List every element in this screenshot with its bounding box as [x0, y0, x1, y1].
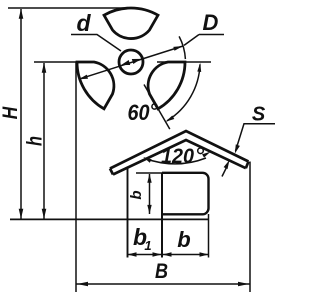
arrowhead 120 right	[202, 152, 210, 158]
B right extension line	[249, 162, 251, 293]
arrowhead on extension line left of d line	[79, 75, 88, 80]
B dimension line	[76, 283, 250, 285]
h dimension line	[43, 63, 45, 219]
left horizontal extension line	[34, 61, 77, 63]
rotor blade lower-right	[148, 62, 185, 109]
label b1	[133, 224, 152, 253]
svg-text:D: D	[203, 10, 219, 35]
B left extension line	[75, 62, 77, 292]
svg-text:b: b	[128, 190, 145, 199]
svg-text:1: 1	[144, 238, 151, 253]
label S with leader	[236, 104, 276, 152]
svg-text:B: B	[155, 260, 168, 283]
svg-text:h: h	[24, 136, 47, 146]
arrowhead b1 right	[153, 252, 162, 257]
arrowhead d right	[132, 59, 141, 64]
label D with leader	[184, 10, 224, 45]
arrowhead b1 left	[128, 252, 137, 257]
right horizontal radial extension	[157, 61, 211, 63]
svg-text:60: 60	[128, 100, 151, 125]
arrowhead 120 left	[143, 157, 151, 163]
bottom baseline extension line	[10, 218, 209, 220]
arrowhead S outer	[235, 144, 240, 153]
svg-text:S: S	[252, 104, 266, 126]
arrowhead 60 top	[197, 63, 201, 72]
label 60deg	[128, 100, 158, 125]
60 deg dimension arc	[167, 64, 200, 120]
dimension line d through hub	[80, 46, 183, 79]
label 120deg	[161, 145, 203, 168]
rotor blade top	[104, 8, 158, 39]
extension below square right edge	[208, 214, 210, 258]
svg-text:H: H	[0, 106, 22, 119]
b vertical dimension line	[149, 174, 151, 214]
svg-text:d: d	[76, 10, 91, 36]
top extension line	[8, 7, 134, 9]
label d with leader	[71, 10, 121, 51]
b top extension line	[136, 172, 162, 174]
bent plate roof outer surface	[110, 131, 249, 169]
svg-text:b: b	[177, 227, 190, 252]
roof right end cap	[246, 162, 249, 169]
arrowhead S inner with shaft	[222, 167, 227, 177]
arrowhead B right	[238, 282, 249, 286]
H dimension line	[20, 9, 22, 219]
flue left wall line	[127, 167, 129, 258]
rotor hub circle	[119, 50, 143, 74]
roof left end cap	[110, 169, 113, 175]
b1-b dimension line	[128, 254, 209, 256]
arrowhead B left	[77, 282, 88, 286]
arrowhead b down	[147, 205, 151, 214]
arrowhead d left	[121, 60, 130, 65]
radial edge extension at 60 deg	[144, 85, 170, 130]
rounded square opening	[162, 173, 209, 215]
arrowhead b right	[200, 252, 209, 257]
arrowhead D on arc	[173, 46, 183, 51]
svg-text:120: 120	[161, 145, 194, 168]
flue inner wall / b1 extension line	[161, 173, 163, 258]
120 deg dimension arc	[145, 158, 206, 164]
arrowhead 60 bottom	[166, 116, 175, 122]
arc of diameter D	[179, 36, 185, 59]
arrowhead b up	[147, 174, 151, 183]
rotor blade lower-left	[77, 62, 114, 109]
arrowhead b left	[163, 252, 172, 257]
bent plate roof inner surface	[113, 140, 246, 175]
